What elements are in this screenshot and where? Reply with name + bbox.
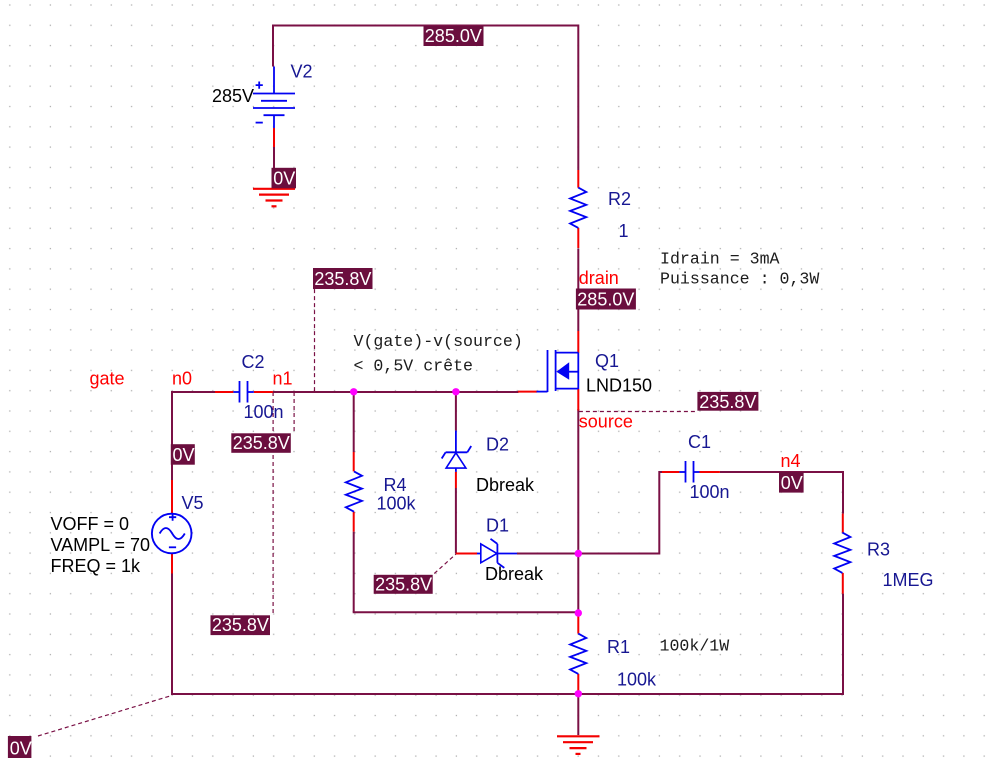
- svg-text:V2: V2: [291, 62, 313, 82]
- pin D1 left: [456, 553, 477, 555]
- wire V5 bottom to bottom rail: [171, 574, 173, 695]
- node box 0V under V2: [272, 168, 297, 189]
- svg-text:VAMPL = 70: VAMPL = 70: [51, 535, 151, 555]
- svg-text:Idrain = 3mA: Idrain = 3mA: [660, 250, 780, 269]
- svg-text:0V: 0V: [10, 739, 32, 759]
- svg-text:235.8V: 235.8V: [212, 615, 269, 635]
- wire Q1 source down through junctions: [577, 409, 579, 613]
- zener diode D2: [442, 431, 472, 472]
- node box 235.8V under C2: [231, 433, 290, 453]
- pin Q1 gate: [518, 391, 537, 393]
- junction bottom rail: [575, 690, 582, 697]
- wire C1 right to R3 branch corner: [720, 472, 843, 514]
- node box 235.8V right of source: [697, 392, 758, 411]
- svg-text:100k: 100k: [377, 494, 417, 514]
- svg-text:235.8V: 235.8V: [375, 574, 432, 594]
- node box 235.8V upper (n1 net): [313, 268, 373, 289]
- svg-text:C1: C1: [688, 432, 711, 452]
- pin D2 bottom: [455, 472, 457, 488]
- wire R4 rail to R1 junction: [353, 611, 579, 613]
- pin V5 bottom: [171, 554, 173, 574]
- svg-text:R1: R1: [607, 637, 630, 657]
- pin R4 top: [353, 452, 355, 471]
- battery V2 symbol: [253, 67, 295, 129]
- capacitor C2: [233, 381, 253, 403]
- zener diode D1: [477, 539, 517, 568]
- svg-text:source: source: [579, 412, 633, 432]
- capacitor C1: [679, 461, 699, 483]
- pin R2 bottom: [577, 228, 579, 248]
- junction R4-R1: [575, 609, 582, 616]
- wire bottom rail: [171, 693, 843, 695]
- svg-text:285.0V: 285.0V: [577, 290, 634, 310]
- svg-text:Dbreak: Dbreak: [485, 564, 544, 584]
- svg-text:n0: n0: [172, 369, 192, 389]
- pin C2 right: [254, 391, 273, 393]
- wire left vertical gate to V5: [171, 391, 173, 480]
- pin R1 bottom: [577, 674, 579, 691]
- wire gate horizontal left segment: [172, 391, 215, 393]
- node box 235.8V near D1: [374, 575, 433, 594]
- pin Q1 drain: [577, 331, 579, 353]
- pin C2 left: [215, 391, 233, 393]
- svg-text:100k/1W: 100k/1W: [660, 637, 730, 656]
- node box 0V bottom left: [8, 736, 32, 758]
- resistor R3: [834, 533, 850, 573]
- svg-text:100n: 100n: [244, 402, 284, 422]
- svg-text:V5: V5: [182, 493, 204, 513]
- svg-text:235.8V: 235.8V: [233, 433, 290, 453]
- svg-text:Dbreak: Dbreak: [476, 475, 535, 495]
- junction n1-R4: [350, 388, 357, 395]
- svg-text:D2: D2: [486, 435, 509, 455]
- svg-text:Puissance : 0,3W: Puissance : 0,3W: [660, 270, 819, 289]
- node box 285.0V top: [424, 26, 484, 46]
- svg-text:235.8V: 235.8V: [314, 269, 371, 289]
- node box 0V under n0: [171, 444, 195, 465]
- junction n1-D2: [452, 388, 459, 395]
- svg-text:R3: R3: [867, 540, 890, 560]
- sine source V5: [152, 514, 192, 554]
- pin V2 bottom: [273, 128, 275, 147]
- svg-text:D1: D1: [486, 516, 509, 536]
- svg-text:285.0V: 285.0V: [425, 26, 482, 46]
- pin C1 left: [662, 471, 679, 473]
- wire top horizontal from V2 to drain branch: [273, 25, 578, 27]
- svg-text:R2: R2: [608, 189, 631, 209]
- pin Q1 source: [577, 389, 579, 411]
- svg-text:1: 1: [619, 221, 629, 241]
- wire R1 bottom stub to ground: [577, 694, 579, 735]
- svg-text:100k: 100k: [617, 670, 657, 690]
- svg-text:VOFF = 0: VOFF = 0: [51, 514, 130, 534]
- dashed probe 235.8V near D1: [434, 554, 456, 574]
- svg-text:n4: n4: [781, 451, 801, 471]
- svg-text:100n: 100n: [690, 482, 730, 502]
- wire D2 branch top: [455, 392, 457, 431]
- pin C1 right: [700, 471, 720, 473]
- svg-text:0V: 0V: [781, 473, 803, 493]
- pin R4 bottom: [353, 512, 355, 532]
- pin V5 top: [171, 480, 173, 514]
- node box 235.8V left middle: [211, 615, 271, 635]
- resistor R1: [570, 634, 586, 674]
- wire R2 bottom to Q1 drain: [577, 249, 579, 332]
- svg-text:V(gate)-v(source): V(gate)-v(source): [354, 332, 523, 351]
- wire gate horizontal right of C2 to Q1 gate: [273, 391, 519, 393]
- svg-text:LND150: LND150: [586, 376, 652, 396]
- wire R3 bottom to rail: [842, 594, 844, 695]
- svg-text:235.8V: 235.8V: [699, 392, 756, 412]
- wire R4 bottom to rail: [353, 532, 355, 613]
- ground bottom: [557, 736, 600, 754]
- svg-text:0V: 0V: [173, 445, 195, 465]
- svg-text:< 0,5V crête: < 0,5V crête: [354, 357, 474, 376]
- node box 285.0V drain: [576, 289, 636, 310]
- svg-text:drain: drain: [579, 268, 619, 288]
- dashed probe 235.8V above gate wire: [314, 289, 316, 391]
- svg-text:0V: 0V: [273, 169, 295, 189]
- svg-text:R4: R4: [384, 475, 407, 495]
- pin R3 bottom: [842, 573, 844, 594]
- svg-text:C2: C2: [242, 352, 265, 372]
- node box 0V at n4: [779, 472, 804, 493]
- wire V2 top vertical: [272, 25, 274, 67]
- svg-text:gate: gate: [90, 369, 125, 389]
- svg-text:1MEG: 1MEG: [883, 570, 934, 590]
- wire R4 branch top: [353, 392, 355, 452]
- wire drain branch vertical down to R2: [577, 25, 579, 171]
- dashed probe 0V bottom-left: [38, 695, 172, 736]
- pin R3 top: [842, 514, 844, 533]
- junction source-C1: [575, 550, 582, 557]
- svg-text:FREQ = 1k: FREQ = 1k: [51, 556, 142, 576]
- svg-text:285V: 285V: [212, 86, 254, 106]
- dashed probe 235.8V right of source: [579, 411, 698, 413]
- mosfet Q1: [537, 350, 579, 392]
- ground under V2: [253, 189, 295, 207]
- wire D1 cathode to C1 branch corner: [517, 472, 662, 554]
- wire D2 bottom to D1 corner: [455, 488, 457, 554]
- resistor R2: [570, 188, 586, 228]
- resistor R4: [346, 471, 362, 511]
- wire V2 bottom to ground: [273, 147, 275, 189]
- dashed probe 235.8V below C2: [293, 392, 295, 433]
- svg-text:Q1: Q1: [595, 351, 619, 371]
- pin R2 top: [577, 170, 579, 188]
- pin R1 top: [577, 615, 579, 634]
- svg-text:n1: n1: [273, 369, 293, 389]
- dashed probe 235.8V left middle long: [272, 392, 274, 615]
